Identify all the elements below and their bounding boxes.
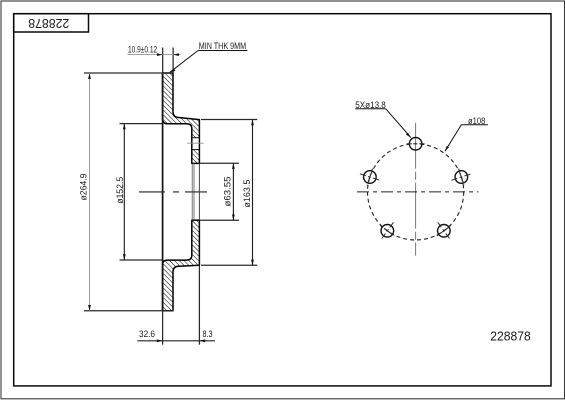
leader for d108 — [445, 125, 488, 152]
svg-text:ø63.55: ø63.55 — [222, 177, 232, 207]
disc section upper half: friction ring, hat flange and wall (hatched) — [163, 73, 200, 163]
dimension line d264.9 with arrows — [88, 73, 91, 311]
centre bore chamfer silhouette lines — [192, 163, 194, 220]
extension line left for 32.6 — [162, 311, 164, 345]
bolt hole bottom-left (234deg) with mark — [380, 222, 394, 239]
section axis centerline — [139, 191, 207, 193]
svg-text:32.6: 32.6 — [139, 329, 155, 339]
dimension line d152.5 with arrows — [123, 124, 126, 260]
svg-text:10.9±0.12: 10.9±0.12 — [128, 44, 157, 54]
svg-text:ø152.5: ø152.5 — [115, 177, 125, 204]
svg-text:8.3: 8.3 — [203, 329, 213, 339]
extension lines d63.55 — [200, 163, 239, 220]
extension line right for 8.3 — [198, 163, 200, 344]
dimension line d163.5 with arrows — [251, 120, 254, 266]
bolt hole left (162deg) with mark — [360, 169, 380, 186]
svg-text:228878: 228878 — [28, 16, 69, 31]
note leader MIN THK — [169, 51, 247, 73]
extension lines d163.5 — [201, 120, 257, 266]
outboard friction face silhouette line — [162, 73, 164, 311]
leader for 5Xd13.8 — [355, 109, 411, 138]
bolt hole bottom-right (306deg) with mark — [437, 222, 451, 239]
svg-text:228878: 228878 — [490, 329, 531, 344]
svg-text:ø264.9: ø264.9 — [79, 174, 89, 201]
svg-text:ø163.5: ø163.5 — [242, 180, 252, 208]
bolt hole top (90deg) with mark — [407, 138, 425, 151]
extension line bottom of disc OD — [84, 310, 173, 312]
pilot step band in upper hat wall — [192, 138, 200, 150]
dimension line 10.9 with inward arrows — [127, 53, 180, 56]
bolt circle d108 (dashed) — [368, 144, 464, 240]
horizontal centerline — [357, 191, 479, 193]
extension line top of disc OD — [84, 72, 172, 74]
extension lines d152.5 — [120, 124, 163, 260]
bolt hole right (18deg) with mark — [451, 169, 471, 186]
disc section lower half: friction ring, hat flange and wall (hatched, mirror) — [163, 220, 200, 311]
extension ticks for thickness 10.9 — [163, 48, 173, 74]
dimension line d63.55 with arrows — [232, 163, 235, 220]
step line across hat wall — [187, 142, 203, 144]
title block box top-left — [14, 14, 89, 32]
vertical centerline — [415, 123, 417, 256]
svg-text:MIN THK 9MM: MIN THK 9MM — [199, 41, 247, 51]
bottom dimension line with arrows — [137, 339, 215, 342]
